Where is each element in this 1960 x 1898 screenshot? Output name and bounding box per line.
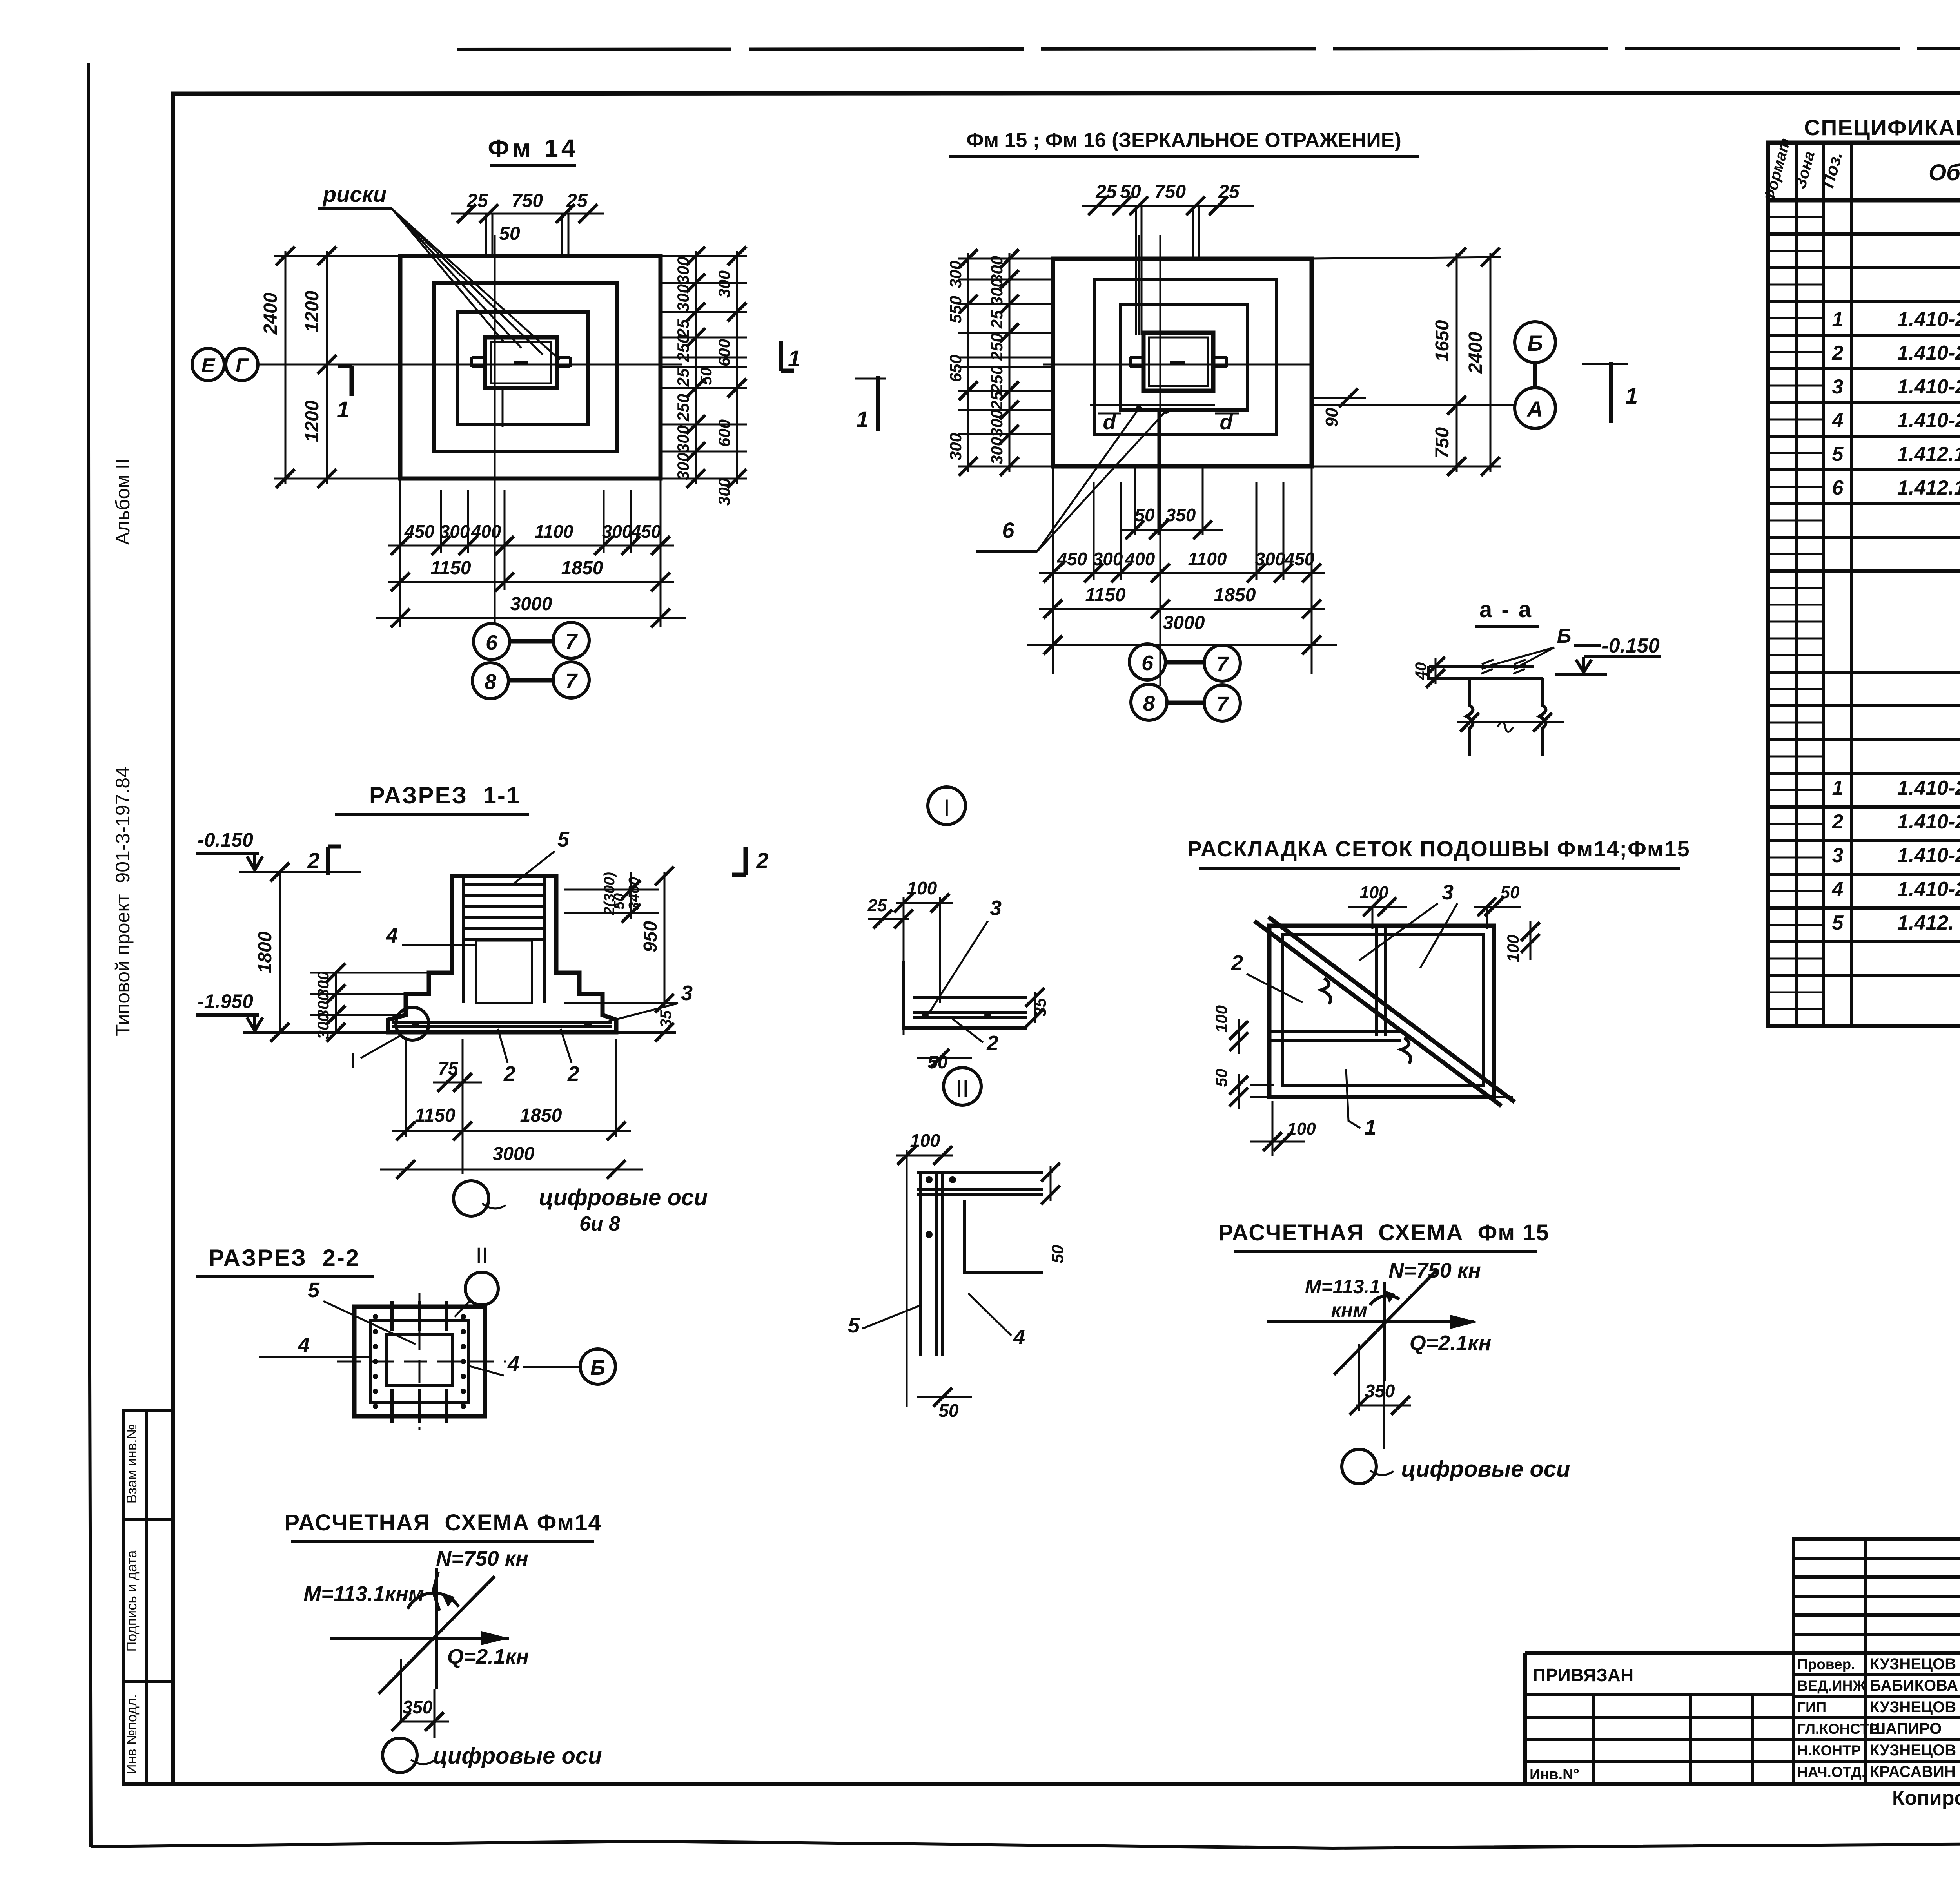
svg-text:650: 650 <box>946 355 965 382</box>
svg-text:1.412.1 - 4.060: 1.412.1 - 4.060 <box>1897 477 1960 499</box>
plan Fm14 riski label <box>318 182 560 360</box>
svg-text:300: 300 <box>946 261 965 288</box>
svg-text:300: 300 <box>674 425 692 453</box>
svg-text:4: 4 <box>298 1333 310 1357</box>
plan Fm14 top dimensions <box>451 190 604 258</box>
scheme Fm15 title <box>1218 1220 1550 1251</box>
svg-text:1.410-2: 1.410-2 <box>1897 810 1960 833</box>
svg-text:35: 35 <box>1031 998 1049 1016</box>
svg-text:6: 6 <box>1142 651 1154 675</box>
section 1-1 label 5 <box>514 828 570 884</box>
svg-text:300: 300 <box>440 521 470 542</box>
section mark 1 right of Fm15 <box>1582 362 1638 423</box>
svg-text:II: II <box>956 1075 969 1102</box>
svg-text:8: 8 <box>485 670 496 694</box>
mesh layout dimensions <box>1212 881 1540 1156</box>
svg-text:600: 600 <box>715 339 733 366</box>
svg-text:2: 2 <box>1832 810 1844 833</box>
svg-text:300: 300 <box>1093 549 1123 569</box>
svg-text:Типовой проект 901-3-197.84: Типовой проект 901-3-197.84 <box>112 767 134 1036</box>
svg-text:2: 2 <box>1832 342 1844 364</box>
svg-text:7: 7 <box>565 630 578 653</box>
svg-text:-1.950: -1.950 <box>198 990 253 1012</box>
svg-text:3400: 3400 <box>626 877 642 910</box>
plan Fm14 bottom dimensions <box>376 479 686 627</box>
svg-text:1: 1 <box>856 407 869 432</box>
svg-text:Обозначение: Обозначение <box>1929 160 1960 185</box>
svg-text:3: 3 <box>681 981 693 1005</box>
svg-text:Копировал: Коршунова: Копировал: Коршунова <box>1892 1787 1960 1809</box>
svg-text:50: 50 <box>1212 1069 1230 1087</box>
svg-text:1: 1 <box>1365 1116 1376 1139</box>
section 1-1 right dimensions <box>564 867 678 1042</box>
specification table grid <box>1768 143 1960 1026</box>
svg-text:1100: 1100 <box>535 521 573 542</box>
plan Fm15 outer footing <box>1053 259 1312 466</box>
svg-text:Фм 14: Фм 14 <box>488 134 579 162</box>
svg-text:3000: 3000 <box>1163 613 1205 633</box>
svg-text:100: 100 <box>1359 883 1388 902</box>
mesh layout plan <box>1254 917 1515 1106</box>
svg-text:750: 750 <box>512 190 543 211</box>
svg-text:II: II <box>475 1243 488 1267</box>
svg-text:РАСЧЕТНАЯ СХЕМА Фм14: РАСЧЕТНАЯ СХЕМА Фм14 <box>284 1510 601 1535</box>
svg-text:1150: 1150 <box>415 1105 456 1126</box>
svg-text:Б: Б <box>1527 331 1543 355</box>
svg-text:750: 750 <box>1154 181 1186 202</box>
svg-text:3: 3 <box>990 896 1002 920</box>
svg-text:2400: 2400 <box>260 292 281 335</box>
svg-text:250: 250 <box>987 366 1006 393</box>
plan Fm15 inner step <box>1121 304 1248 410</box>
svg-text:1650: 1650 <box>1432 320 1453 362</box>
axis circles 8-7 under Fm15 <box>1131 684 1240 721</box>
svg-text:1.410-2: 1.410-2 <box>1897 308 1960 331</box>
svg-text:4: 4 <box>1832 878 1844 901</box>
svg-text:цифровые оси: цифровые оси <box>539 1185 708 1210</box>
section 2-2 plan view <box>337 1293 506 1430</box>
sheet top edge <box>457 48 1960 49</box>
svg-text:1850: 1850 <box>1214 585 1256 605</box>
svg-text:300: 300 <box>946 433 965 460</box>
svg-text:N=750 кн: N=750 кн <box>436 1547 528 1570</box>
svg-text:5: 5 <box>1832 443 1844 466</box>
section 2-2 label 5 <box>308 1278 416 1344</box>
section 2-2 labels 4 <box>259 1333 579 1376</box>
section mark 2 top <box>307 847 341 875</box>
svg-text:300: 300 <box>602 521 632 542</box>
svg-text:7: 7 <box>1216 653 1229 676</box>
svg-text:7: 7 <box>1216 692 1229 716</box>
svg-text:ГЛ.КОНСТР: ГЛ.КОНСТР <box>1797 1721 1878 1737</box>
svg-text:450: 450 <box>1057 549 1087 569</box>
svg-text:50: 50 <box>499 223 520 244</box>
svg-text:Б: Б <box>1557 625 1572 647</box>
svg-text:300: 300 <box>715 270 733 298</box>
svg-text:Подпись и дата: Подпись и дата <box>123 1550 140 1652</box>
svg-text:50: 50 <box>927 1052 948 1072</box>
spec table content block Fm15 Fm16 <box>1832 206 1960 567</box>
svg-text:КУЗНЕЦОВ: КУЗНЕЦОВ <box>1870 1655 1956 1673</box>
svg-text:Провер.: Провер. <box>1797 1656 1855 1672</box>
svg-text:2: 2 <box>986 1031 998 1055</box>
svg-text:2: 2 <box>307 848 319 873</box>
left margin stamp strip <box>123 1410 173 1784</box>
axis circle B <box>1515 322 1555 388</box>
svg-text:3: 3 <box>1832 375 1844 398</box>
svg-text:8: 8 <box>1143 692 1155 715</box>
svg-text:2400: 2400 <box>1465 332 1486 374</box>
svg-text:2: 2 <box>567 1062 579 1086</box>
svg-text:Н.КОНТР: Н.КОНТР <box>1797 1742 1861 1758</box>
svg-text:1: 1 <box>337 397 349 422</box>
svg-text:250: 250 <box>674 334 692 362</box>
plan Fm14 right dimensions <box>662 247 747 506</box>
svg-text:а - а: а - а <box>1479 597 1533 622</box>
section mark 1 left of Fm15 <box>855 376 886 432</box>
svg-text:А: А <box>1526 397 1543 421</box>
svg-text:РАСКЛАДКА СЕТОК ПОДОШВЫ Фм14;Ф: РАСКЛАДКА СЕТОК ПОДОШВЫ Фм14;Фм15 <box>1187 836 1690 861</box>
plan Fm14 left dimensions <box>260 247 400 488</box>
svg-text:Инв №подл.: Инв №подл. <box>123 1694 140 1774</box>
svg-text:3: 3 <box>1832 844 1844 867</box>
svg-text:100: 100 <box>910 1130 940 1151</box>
plan Fm15 centerlines <box>1043 235 1514 686</box>
sheet scan bottom edge <box>91 1841 1960 1848</box>
section 1-1 title <box>335 782 529 814</box>
section 1-1 detail I mark <box>350 1007 429 1073</box>
svg-text:100: 100 <box>1212 1005 1230 1033</box>
svg-text:1: 1 <box>1832 308 1844 331</box>
svg-text:1.410-2: 1.410-2 <box>1897 375 1960 398</box>
svg-text:4: 4 <box>507 1352 519 1376</box>
svg-text:КРАСАВИН: КРАСАВИН <box>1870 1763 1956 1780</box>
spec table content block Fm14 <box>1832 676 1960 1024</box>
svg-text:цифровые оси: цифровые оси <box>1401 1456 1570 1482</box>
svg-text:БАБИКОВА: БАБИКОВА <box>1870 1677 1958 1694</box>
svg-text:Инв.N°: Инв.N° <box>1530 1766 1579 1783</box>
svg-text:350: 350 <box>1166 505 1196 525</box>
scheme Fm14 diagram <box>303 1547 529 1738</box>
detail I circle <box>928 787 965 825</box>
title block frame <box>1525 1548 1960 1784</box>
svg-text:2: 2 <box>503 1062 515 1086</box>
plan Fm14 column <box>472 337 570 427</box>
svg-text:50: 50 <box>1120 181 1141 202</box>
svg-text:I: I <box>350 1048 356 1073</box>
svg-text:1850: 1850 <box>520 1105 562 1126</box>
svg-text:600: 600 <box>715 419 733 447</box>
svg-text:300: 300 <box>987 278 1006 306</box>
section 1-1 label 4 <box>386 924 476 947</box>
svg-text:90: 90 <box>1322 408 1341 427</box>
svg-text:ГИП: ГИП <box>1797 1699 1826 1715</box>
svg-text:Взам инв.№: Взам инв.№ <box>123 1424 140 1503</box>
svg-text:300: 300 <box>1255 549 1285 569</box>
signature rows <box>1797 1655 1960 1780</box>
svg-text:1.410-2: 1.410-2 <box>1897 878 1960 901</box>
svg-text:25: 25 <box>867 896 887 915</box>
svg-text:350: 350 <box>403 1697 433 1717</box>
plan Fm15 right dimensions <box>1312 248 1501 476</box>
svg-text:7: 7 <box>565 669 578 693</box>
axis circles 8-7 under Fm14 <box>472 662 589 699</box>
svg-text:25: 25 <box>466 190 488 211</box>
svg-text:750: 750 <box>1432 427 1453 459</box>
svg-text:M=113.1кнм: M=113.1кнм <box>303 1582 424 1606</box>
svg-text:1150: 1150 <box>430 558 471 578</box>
plan Fm15 d letters <box>1098 410 1239 434</box>
svg-text:M=113.1: M=113.1 <box>1305 1276 1380 1298</box>
scheme Fm15 axis circle <box>1342 1449 1570 1484</box>
svg-text:I: I <box>944 795 950 821</box>
svg-text:1850: 1850 <box>561 558 603 578</box>
svg-text:КУЗНЕЦОВ: КУЗНЕЦОВ <box>1870 1699 1956 1716</box>
axis circle G <box>226 348 258 381</box>
svg-text:-0.150: -0.150 <box>198 829 253 851</box>
svg-text:1: 1 <box>1625 383 1638 409</box>
detail II drawing <box>848 1130 1067 1421</box>
svg-text:300: 300 <box>674 453 692 480</box>
section 1-1 label 3 <box>606 981 693 1022</box>
svg-text:25: 25 <box>674 368 692 387</box>
plan Fm15 dims 50 350 <box>1121 411 1223 539</box>
section 2-2 detail II mark <box>455 1243 498 1317</box>
svg-text:25: 25 <box>1095 181 1117 202</box>
svg-text:450: 450 <box>404 521 435 542</box>
svg-text:300: 300 <box>674 284 692 312</box>
section 1-1 left dimensions <box>255 863 452 1042</box>
svg-text:Е: Е <box>201 354 216 377</box>
svg-text:6: 6 <box>1002 518 1014 542</box>
svg-text:300: 300 <box>987 410 1006 437</box>
svg-text:50: 50 <box>1134 505 1155 525</box>
mesh layout title <box>1187 836 1690 868</box>
scheme Fm15 diagram <box>1267 1259 1491 1449</box>
spec table header <box>1760 136 1960 204</box>
detail I drawing <box>867 878 1049 1072</box>
svg-text:НАЧ.ОТД.: НАЧ.ОТД. <box>1797 1764 1866 1780</box>
plan Fm15 title <box>949 129 1419 157</box>
svg-text:Б: Б <box>590 1356 605 1380</box>
section 1-1 elevation -0.150 <box>196 829 361 872</box>
section 1-1 elevation -1.950 <box>196 990 263 1031</box>
svg-text:250: 250 <box>987 333 1006 361</box>
plan Fm14 outer footing <box>400 256 661 479</box>
svg-text:риски: риски <box>322 182 387 207</box>
svg-text:4: 4 <box>1832 409 1844 432</box>
svg-text:ВЕД.ИНЖ: ВЕД.ИНЖ <box>1797 1678 1866 1694</box>
svg-text:450: 450 <box>1284 549 1315 569</box>
plan Fm15 top dimensions <box>1082 181 1254 335</box>
svg-text:6и 8: 6и 8 <box>579 1213 620 1235</box>
svg-text:100: 100 <box>1287 1119 1316 1138</box>
section 2-2 axis circle B <box>580 1349 615 1384</box>
sheet scan left edge <box>88 63 91 1847</box>
svg-text:СПЕЦИФИКАЦИЯ ЭЛЕМЕНТОВ МОНОЛИТ: СПЕЦИФИКАЦИЯ ЭЛЕМЕНТОВ МОНОЛИТНОЙ КОНСТР… <box>1804 115 1960 140</box>
svg-text:300: 300 <box>674 257 692 284</box>
svg-text:1.410-2: 1.410-2 <box>1897 409 1960 432</box>
svg-text:950: 950 <box>640 921 661 952</box>
svg-text:-0.150: -0.150 <box>1602 634 1660 657</box>
svg-text:Альбом II: Альбом II <box>112 458 134 545</box>
svg-text:1: 1 <box>1832 777 1844 799</box>
svg-text:75: 75 <box>438 1058 459 1079</box>
svg-text:50: 50 <box>1048 1245 1067 1264</box>
svg-text:1.410-2: 1.410-2 <box>1897 844 1960 867</box>
plan Fm14 middle step <box>434 283 617 451</box>
axis circle A <box>1515 388 1555 428</box>
svg-text:1: 1 <box>788 346 800 372</box>
svg-text:4: 4 <box>386 924 398 947</box>
svg-text:400: 400 <box>1125 549 1155 569</box>
svg-text:400: 400 <box>471 521 501 542</box>
axis circle E <box>192 348 224 381</box>
svg-text:2: 2 <box>1231 951 1243 975</box>
section 1-1 labels 2 <box>498 1029 579 1086</box>
section 1-1 axis circle <box>454 1181 708 1235</box>
svg-text:1150: 1150 <box>1085 585 1126 605</box>
svg-text:2: 2 <box>756 848 768 873</box>
svg-text:Q=2.1кн: Q=2.1кн <box>447 1645 529 1668</box>
svg-text:РАСЧЕТНАЯ СХЕМА Фм 15: РАСЧЕТНАЯ СХЕМА Фм 15 <box>1218 1220 1550 1245</box>
svg-text:25: 25 <box>1218 181 1240 202</box>
plan Fm15 middle step <box>1094 279 1277 434</box>
scheme Fm14 title <box>284 1510 601 1541</box>
detail a-a title <box>1475 597 1539 626</box>
section 2-2 title <box>196 1245 374 1277</box>
svg-text:6: 6 <box>1832 477 1844 499</box>
svg-text:1200: 1200 <box>302 290 323 332</box>
plan Fm14 centerlines <box>257 235 682 625</box>
svg-text:2(300): 2(300) <box>601 872 618 915</box>
svg-text:5: 5 <box>557 828 570 851</box>
plan Fm15 left dimensions <box>946 249 1053 476</box>
svg-text:300: 300 <box>315 1013 332 1039</box>
section mark 2 right <box>732 847 769 875</box>
detail a-a drawing <box>1412 625 1661 756</box>
svg-text:1100: 1100 <box>1188 549 1227 569</box>
svg-text:5: 5 <box>1832 912 1844 934</box>
svg-text:5: 5 <box>308 1278 320 1302</box>
svg-text:300: 300 <box>715 478 733 506</box>
svg-text:300: 300 <box>987 437 1006 464</box>
section 1-1 foundation profile <box>243 876 676 1032</box>
plan Fm15 column <box>1130 235 1227 391</box>
svg-text:50: 50 <box>938 1400 959 1421</box>
svg-text:Фм 15 ; Фм 16 (ЗЕРКАЛЬНОЕ ОТРА: Фм 15 ; Фм 16 (ЗЕРКАЛЬНОЕ ОТРАЖЕНИЕ) <box>966 129 1401 152</box>
section 1-1 bottom dimensions <box>380 1039 643 1179</box>
svg-text:Г: Г <box>236 354 249 377</box>
svg-text:3: 3 <box>1442 881 1454 904</box>
privyazan block <box>1525 1665 1793 1784</box>
svg-text:1.412. 1/77 - 8.3-060: 1.412. 1/77 - 8.3-060 <box>1897 912 1960 934</box>
scheme Fm14 axis circle <box>383 1738 602 1773</box>
section mark 1 right <box>781 341 800 372</box>
svg-text:40: 40 <box>1412 662 1430 680</box>
svg-text:50: 50 <box>698 368 715 385</box>
axis circles 6-7 under Fm15 <box>1129 644 1240 681</box>
detail II circle <box>944 1068 981 1105</box>
svg-text:КУЗНЕЦОВ: КУЗНЕЦОВ <box>1870 1742 1956 1759</box>
svg-text:550: 550 <box>946 296 965 323</box>
axis circles 6-7 under Fm14 <box>474 622 589 660</box>
svg-text:3000: 3000 <box>510 594 552 615</box>
svg-text:РАЗРЕЗ 1-1: РАЗРЕЗ 1-1 <box>369 782 521 809</box>
svg-text:5: 5 <box>848 1314 860 1337</box>
svg-text:1.410-2: 1.410-2 <box>1897 777 1960 799</box>
svg-text:100: 100 <box>907 878 937 898</box>
svg-text:1.412.1/77- 8.3-060: 1.412.1/77- 8.3-060 <box>1897 443 1960 466</box>
svg-text:1200: 1200 <box>302 400 323 442</box>
svg-text:ПРИВЯЗАН: ПРИВЯЗАН <box>1533 1665 1633 1685</box>
svg-text:100: 100 <box>1504 935 1522 962</box>
svg-text:Q=2.1кн: Q=2.1кн <box>1410 1331 1492 1355</box>
svg-text:3000: 3000 <box>493 1144 535 1164</box>
svg-text:250: 250 <box>674 394 692 422</box>
svg-text:кнм: кнм <box>1331 1299 1368 1321</box>
svg-text:1800: 1800 <box>255 931 276 973</box>
svg-text:50: 50 <box>1501 883 1520 902</box>
svg-text:цифровые оси: цифровые оси <box>433 1743 602 1769</box>
svg-text:25: 25 <box>987 310 1006 329</box>
svg-text:6: 6 <box>486 631 498 654</box>
section mark 1 left <box>337 366 352 422</box>
plan Fm14 inner step <box>457 312 588 424</box>
svg-text:1.410-2: 1.410-2 <box>1897 342 1960 364</box>
svg-text:25: 25 <box>566 190 588 211</box>
svg-text:ШАПИРО: ШАПИРО <box>1870 1720 1942 1737</box>
svg-text:450: 450 <box>631 521 661 542</box>
plan Fm15 bottom dimensions <box>1027 466 1337 674</box>
svg-text:4: 4 <box>1013 1325 1025 1349</box>
plan Fm15 pos6 label <box>976 406 1169 552</box>
svg-text:350: 350 <box>1365 1381 1395 1401</box>
plan Fm14 title <box>488 134 579 165</box>
svg-text:РАЗРЕЗ 2-2: РАЗРЕЗ 2-2 <box>209 1245 360 1271</box>
svg-text:25: 25 <box>987 391 1006 410</box>
title block signature grid <box>1793 1539 1960 1784</box>
